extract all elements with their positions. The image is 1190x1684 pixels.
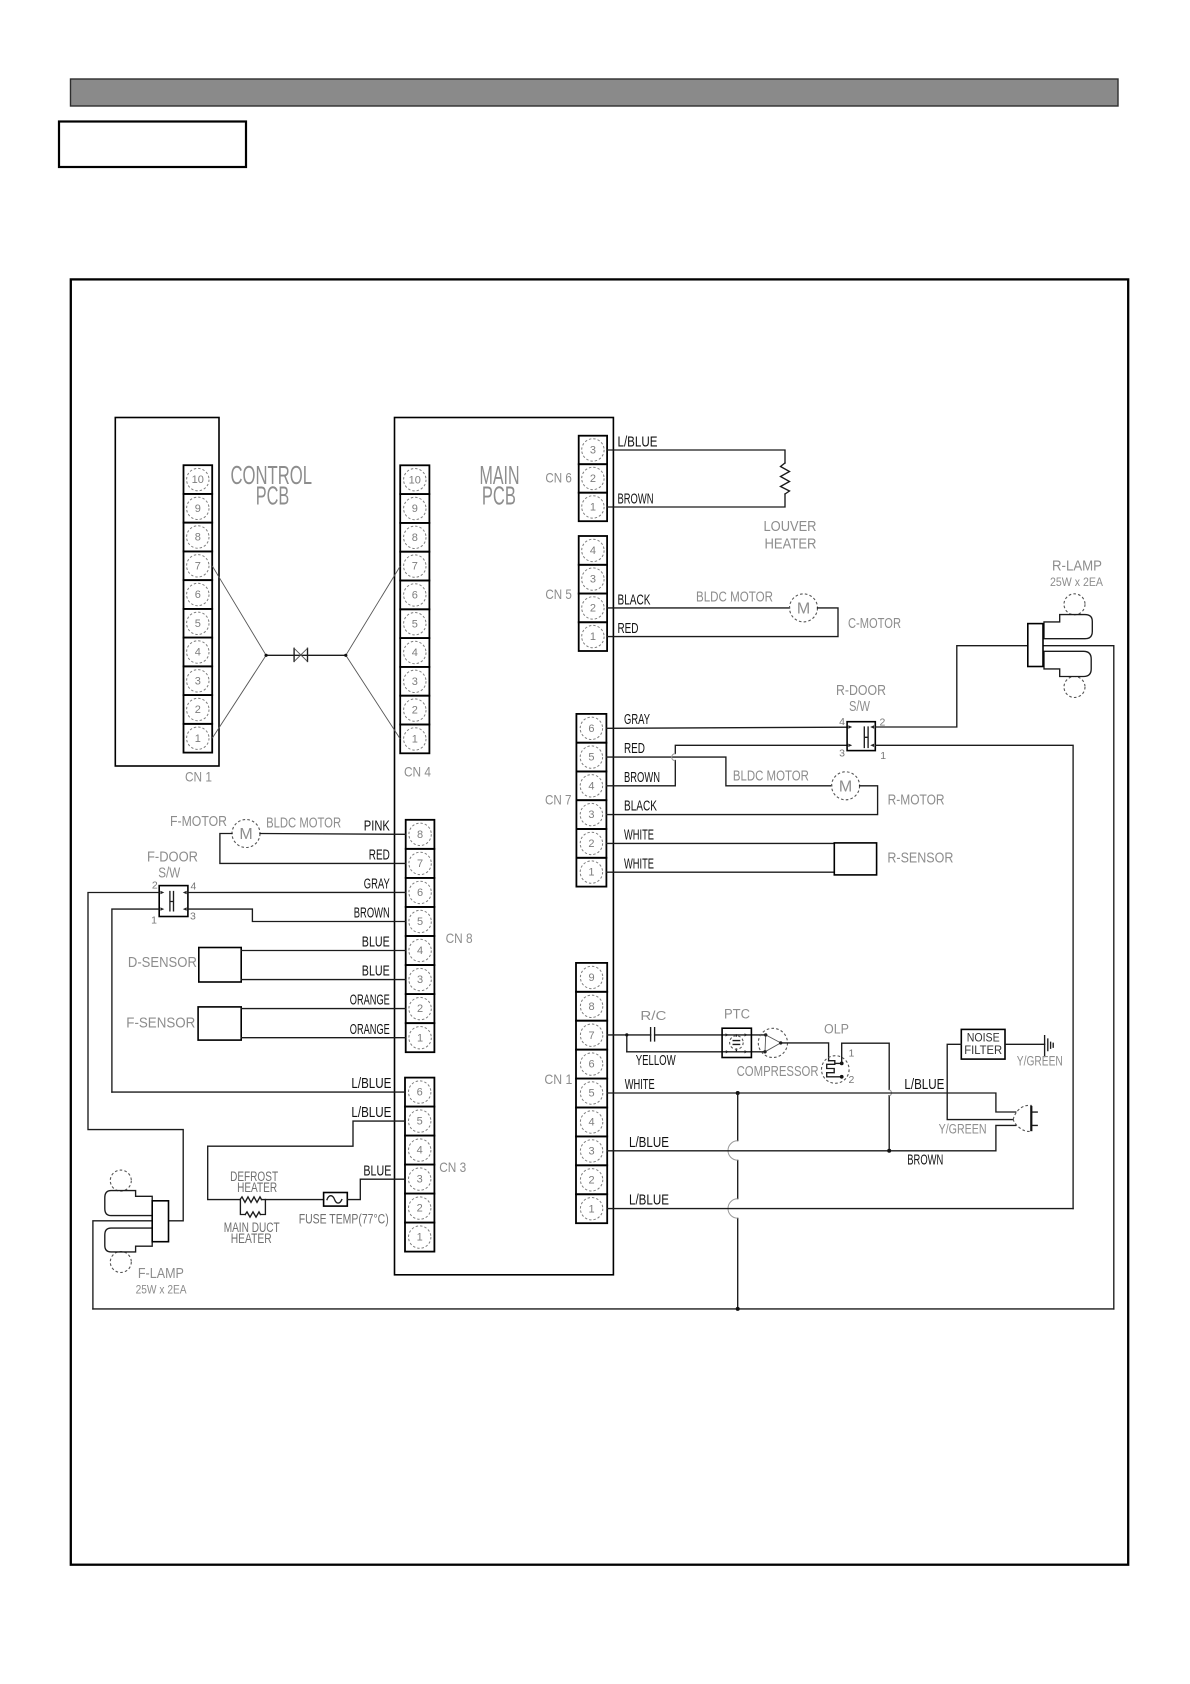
- svg-text:2: 2: [849, 1074, 855, 1086]
- svg-text:1: 1: [417, 1032, 423, 1044]
- louver heater resistor: [781, 463, 790, 494]
- svg-text:F-DOOR: F-DOOR: [147, 850, 198, 866]
- svg-text:PCB: PCB: [256, 481, 289, 511]
- svg-text:2: 2: [417, 1003, 423, 1015]
- svg-text:5: 5: [412, 618, 418, 630]
- svg-text:RED: RED: [369, 848, 390, 864]
- F-lamp bracket: [152, 1201, 168, 1242]
- svg-text:3: 3: [195, 675, 201, 687]
- svg-text:1: 1: [412, 734, 418, 746]
- svg-text:3: 3: [590, 574, 596, 586]
- svg-text:6: 6: [417, 887, 423, 899]
- R-lamp bulb top: [1064, 594, 1085, 615]
- R-lamp bracket: [1028, 624, 1043, 667]
- svg-text:PCB: PCB: [482, 481, 516, 511]
- F-lamp holder top: [105, 1191, 152, 1216]
- svg-text:1: 1: [417, 1232, 423, 1244]
- svg-text:8: 8: [412, 532, 418, 544]
- svg-text:L/BLUE: L/BLUE: [351, 1076, 391, 1092]
- junction OLP / CN1-3: [887, 1149, 891, 1153]
- F-sensor box: [198, 1007, 241, 1040]
- svg-text:3: 3: [417, 974, 423, 986]
- svg-text:7: 7: [195, 560, 201, 572]
- svg-text:6: 6: [412, 590, 418, 602]
- R-door switch: [847, 722, 875, 751]
- wire F-door switch pin1 down: [112, 909, 159, 1092]
- svg-text:3: 3: [412, 676, 418, 688]
- svg-text:7: 7: [589, 1030, 595, 1042]
- svg-text:FILTER: FILTER: [964, 1043, 1002, 1057]
- capacitor R/C: [651, 1028, 655, 1041]
- motor C (M circle): [790, 594, 818, 622]
- wire ORANGE F-sensor to CN8-1: [241, 1037, 406, 1039]
- svg-text:CN 3: CN 3: [439, 1159, 466, 1175]
- main pcb box: [395, 418, 614, 1275]
- svg-text:25W x 2EA: 25W x 2EA: [136, 1283, 187, 1297]
- svg-text:4: 4: [417, 1145, 423, 1157]
- junction bottom bus: [736, 1307, 740, 1311]
- svg-text:BLDC MOTOR: BLDC MOTOR: [733, 768, 809, 784]
- svg-text:F-SENSOR: F-SENSOR: [126, 1016, 195, 1032]
- svg-text:BROWN: BROWN: [354, 906, 390, 922]
- svg-text:2: 2: [588, 838, 594, 850]
- wire L/BLUE CN1-1: [607, 1208, 1073, 1210]
- wire CN1 pin7 to node A: [212, 566, 266, 656]
- D-sensor box: [199, 948, 241, 983]
- wire RED F-motor to CN8-7: [220, 834, 406, 864]
- svg-text:2: 2: [590, 603, 596, 615]
- svg-text:25W x 2EA: 25W x 2EA: [1050, 575, 1103, 589]
- svg-text:LOUVER: LOUVER: [764, 519, 817, 535]
- svg-text:1: 1: [880, 750, 886, 762]
- svg-text:4: 4: [589, 1117, 595, 1129]
- svg-text:R-DOOR: R-DOOR: [836, 683, 886, 699]
- fuse temp 77C: [324, 1193, 348, 1207]
- svg-text:4: 4: [417, 945, 423, 957]
- svg-text:8: 8: [589, 1001, 595, 1013]
- svg-text:9: 9: [195, 503, 201, 515]
- wire defrost heater to fuse: [262, 1199, 324, 1201]
- svg-text:7: 7: [412, 561, 418, 573]
- svg-text:BROWN: BROWN: [618, 492, 654, 508]
- svg-text:R-LAMP: R-LAMP: [1052, 559, 1102, 575]
- svg-text:4: 4: [195, 647, 201, 659]
- svg-text:S/W: S/W: [158, 866, 180, 882]
- wire BLUE D-sensor to CN8-3: [241, 979, 406, 981]
- OLP overload protector: [822, 1056, 850, 1084]
- svg-text:R-SENSOR: R-SENSOR: [887, 851, 953, 867]
- svg-text:1: 1: [590, 631, 596, 643]
- svg-text:RED: RED: [624, 741, 645, 757]
- svg-text:F-MOTOR: F-MOTOR: [170, 814, 227, 830]
- wire WHITE CN7-2 to R-sensor: [606, 842, 834, 844]
- wire OLP pin1 down to CN1-3 wire: [842, 1043, 890, 1151]
- junction CN1-7 branches: [625, 1033, 628, 1036]
- svg-text:F-LAMP: F-LAMP: [138, 1266, 184, 1282]
- wire R-door switch pin2 to R-lamp: [875, 646, 1028, 727]
- connector CN4: [400, 465, 429, 753]
- svg-text:7: 7: [417, 858, 423, 870]
- PTC box: [722, 1028, 751, 1057]
- main duct heater resistor: [245, 1212, 260, 1217]
- svg-text:GRAY: GRAY: [364, 877, 390, 893]
- R-lamp holder bottom: [1044, 651, 1091, 676]
- svg-text:YELLOW: YELLOW: [636, 1053, 676, 1069]
- wire Y/GREEN noise filter to plug earth: [947, 1044, 1013, 1119]
- svg-text:CN 1: CN 1: [185, 769, 212, 785]
- svg-text:PINK: PINK: [364, 819, 390, 835]
- node A: [265, 654, 268, 657]
- wire BROWN louver heater to CN6-1: [607, 494, 785, 507]
- wire hop (BROWN over RED): [672, 754, 676, 761]
- svg-text:6: 6: [588, 723, 594, 735]
- svg-text:R/C: R/C: [640, 1008, 666, 1023]
- svg-text:6: 6: [195, 589, 201, 601]
- svg-text:BLUE: BLUE: [362, 935, 390, 951]
- svg-text:ORANGE: ORANGE: [350, 1022, 390, 1038]
- svg-text:9: 9: [412, 503, 418, 515]
- svg-text:L/BLUE: L/BLUE: [904, 1077, 944, 1093]
- svg-text:L/BLUE: L/BLUE: [618, 435, 658, 451]
- svg-text:4: 4: [588, 780, 594, 792]
- compressor: [758, 1028, 787, 1057]
- svg-text:HEATER: HEATER: [765, 537, 817, 553]
- ground symbol: [1045, 1036, 1054, 1057]
- motor R (M circle): [832, 772, 860, 800]
- svg-text:HEATER: HEATER: [237, 1180, 277, 1195]
- connector CN6: [579, 436, 607, 522]
- wire F-door switch pin2 to F-lamp: [88, 893, 183, 1221]
- R-lamp holder top: [1044, 615, 1092, 639]
- svg-text:CN 5: CN 5: [545, 586, 572, 602]
- svg-text:C-MOTOR: C-MOTOR: [848, 616, 901, 632]
- svg-text:1: 1: [589, 1203, 595, 1215]
- svg-text:S/W: S/W: [849, 699, 870, 715]
- wire YELLOW bottom branch: [627, 1051, 765, 1053]
- svg-text:L/BLUE: L/BLUE: [351, 1105, 391, 1121]
- wire WHITE CN1-5 to plug: [607, 1093, 1016, 1112]
- svg-text:1: 1: [849, 1048, 855, 1060]
- wire BLUE D-sensor to CN8-4: [241, 950, 406, 952]
- svg-text:5: 5: [588, 752, 594, 764]
- wire L/BLUE-BROWN CN1-3 to plug: [607, 1125, 1016, 1150]
- svg-text:2: 2: [589, 1174, 595, 1186]
- F-lamp bulb bottom: [110, 1252, 131, 1273]
- defrost heater resistor: [240, 1197, 262, 1202]
- svg-text:5: 5: [417, 916, 423, 928]
- svg-text:6: 6: [589, 1059, 595, 1071]
- wire WHITE CN7-1 to R-sensor: [606, 871, 834, 873]
- svg-text:ORANGE: ORANGE: [350, 993, 390, 1009]
- svg-text:OLP: OLP: [824, 1022, 849, 1037]
- wire noise filter to ground: [1005, 1043, 1045, 1045]
- svg-text:L/BLUE: L/BLUE: [629, 1135, 669, 1151]
- connector symbol (bowtie): [294, 648, 307, 661]
- svg-text:8: 8: [417, 829, 423, 841]
- wire R-lamp to bottom bus: [1043, 646, 1114, 1309]
- svg-text:PTC: PTC: [724, 1007, 750, 1022]
- svg-text:M: M: [239, 826, 252, 843]
- svg-text:RED: RED: [618, 621, 639, 637]
- svg-text:4: 4: [590, 545, 596, 557]
- wire BLACK CN5-2 to C-motor: [607, 607, 789, 609]
- wire top branch through R/C capacitor: [627, 1034, 766, 1036]
- wire node B to CN4 pin7: [346, 566, 400, 655]
- svg-text:BLACK: BLACK: [624, 799, 657, 815]
- svg-text:5: 5: [195, 618, 201, 630]
- svg-text:BLDC MOTOR: BLDC MOTOR: [266, 816, 341, 832]
- svg-text:WHITE: WHITE: [625, 1077, 655, 1093]
- connector CN7: [576, 714, 606, 887]
- svg-text:2: 2: [152, 880, 158, 892]
- wire bottom bus F-lamp to R-lamp: [93, 1308, 1114, 1310]
- svg-text:3: 3: [190, 911, 196, 923]
- motor F (M circle): [232, 820, 260, 848]
- F-lamp holder bottom: [105, 1228, 152, 1252]
- wire node B to CN4 pin1: [346, 655, 400, 739]
- connector CN3: [405, 1078, 434, 1252]
- wire L/BLUE CN3-5 to defrost heater: [208, 1121, 405, 1200]
- svg-text:BLDC MOTOR: BLDC MOTOR: [696, 590, 773, 606]
- svg-text:2: 2: [417, 1203, 423, 1215]
- svg-text:4: 4: [412, 647, 418, 659]
- svg-text:6: 6: [417, 1087, 423, 1099]
- svg-text:9: 9: [589, 972, 595, 984]
- svg-text:1: 1: [195, 733, 201, 745]
- svg-text:BLUE: BLUE: [362, 964, 390, 980]
- wire RED CN5-1 to C-motor: [607, 608, 838, 637]
- control pcb box: [115, 418, 219, 767]
- wire F-lamp to bottom bus: [93, 1221, 152, 1309]
- svg-text:FUSE TEMP(77°C): FUSE TEMP(77°C): [299, 1212, 389, 1227]
- wire compressor to OLP: [781, 1043, 829, 1061]
- wire BLUE fuse to CN3-3: [347, 1179, 405, 1199]
- svg-text:3: 3: [417, 1174, 423, 1186]
- power plug: [1013, 1105, 1037, 1131]
- svg-text:1: 1: [151, 915, 157, 927]
- svg-text:CN 7: CN 7: [545, 792, 572, 808]
- svg-text:3: 3: [589, 1146, 595, 1158]
- svg-text:BROWN: BROWN: [624, 770, 660, 786]
- node B: [344, 654, 347, 657]
- svg-text:4: 4: [839, 716, 845, 728]
- svg-text:BROWN: BROWN: [907, 1153, 943, 1169]
- svg-text:3: 3: [590, 445, 596, 457]
- svg-text:COMPRESSOR: COMPRESSOR: [737, 1064, 819, 1080]
- wire BLACK CN7-3 to R-motor: [606, 786, 877, 815]
- title bar: [71, 79, 1119, 106]
- svg-text:BLUE: BLUE: [363, 1163, 391, 1179]
- harness wire node A to node B: [266, 654, 346, 656]
- svg-text:M: M: [839, 778, 852, 795]
- wire hop (bus over CN1-3 wire): [728, 1141, 738, 1160]
- svg-text:5: 5: [417, 1116, 423, 1128]
- svg-text:CN 4: CN 4: [404, 764, 431, 780]
- revision box: [59, 122, 246, 168]
- noise filter box: [961, 1029, 1005, 1059]
- svg-text:HEATER: HEATER: [231, 1231, 272, 1246]
- svg-text:2: 2: [195, 704, 201, 716]
- wire ORANGE F-sensor to CN8-2: [241, 1008, 406, 1010]
- svg-text:M: M: [797, 601, 810, 618]
- wire CN1-7 branch junction: [607, 1035, 627, 1052]
- border frame: [71, 279, 1128, 1564]
- F-lamp bulb top: [110, 1170, 131, 1191]
- svg-text:BLACK: BLACK: [618, 593, 651, 609]
- wire RED CN7-5 to R-motor: [606, 757, 831, 786]
- wire R-door switch pin1 down to CN1-1 wire: [875, 745, 1073, 1208]
- svg-text:D-SENSOR: D-SENSOR: [128, 955, 197, 971]
- R-lamp bulb bottom: [1064, 677, 1085, 698]
- svg-text:8: 8: [195, 532, 201, 544]
- svg-text:1: 1: [588, 867, 594, 879]
- wire BROWN CN7-4 to R-door switch pin3: [606, 745, 847, 786]
- svg-text:10: 10: [192, 474, 204, 486]
- svg-text:3: 3: [839, 748, 845, 760]
- wire PINK F-motor to CN8-8: [260, 833, 406, 836]
- svg-text:CN 8: CN 8: [446, 930, 473, 946]
- wire GRAY F-door switch pin4 to CN8-6: [188, 891, 406, 893]
- svg-text:R-MOTOR: R-MOTOR: [888, 792, 945, 808]
- svg-text:4: 4: [191, 881, 197, 893]
- svg-text:1: 1: [590, 502, 596, 514]
- connector CN5: [579, 536, 607, 651]
- wire L/BLUE CN6-3 to louver heater: [607, 450, 785, 463]
- wire L/BLUE to CN3-6: [112, 1091, 405, 1093]
- svg-text:2: 2: [412, 705, 418, 717]
- svg-text:L/BLUE: L/BLUE: [629, 1193, 669, 1209]
- svg-text:GRAY: GRAY: [624, 712, 650, 728]
- R-sensor box: [834, 843, 876, 875]
- svg-text:Y/GREEN: Y/GREEN: [1017, 1054, 1063, 1069]
- wire GRAY CN7-6 to R-door switch pin4: [606, 727, 847, 728]
- connector CN8: [406, 820, 435, 1052]
- svg-text:3: 3: [588, 809, 594, 821]
- wire CN1 pin1 to node A: [212, 655, 266, 738]
- wire hop (bus over CN1-1 wire): [728, 1199, 738, 1218]
- junction WHITE / lamp bus: [736, 1091, 740, 1095]
- connector CN1 (control pcb): [184, 465, 213, 752]
- svg-text:5: 5: [589, 1088, 595, 1100]
- svg-text:10: 10: [409, 474, 421, 486]
- wire lamp bus down from WHITE junction: [737, 1093, 739, 1309]
- svg-text:2: 2: [590, 473, 596, 485]
- F-door switch: [159, 886, 188, 917]
- svg-text:WHITE: WHITE: [624, 856, 654, 872]
- svg-text:CN 6: CN 6: [545, 470, 572, 486]
- main duct heater branch: [240, 1200, 265, 1215]
- svg-text:CN 1: CN 1: [544, 1071, 572, 1087]
- svg-text:WHITE: WHITE: [624, 828, 654, 844]
- wire hop (OLP wire over WHITE): [889, 1090, 891, 1096]
- wire BROWN F-door switch pin3 to CN8-5: [188, 909, 406, 921]
- connector CN1 (main pcb): [576, 963, 607, 1223]
- svg-text:Y/GREEN: Y/GREEN: [939, 1122, 987, 1137]
